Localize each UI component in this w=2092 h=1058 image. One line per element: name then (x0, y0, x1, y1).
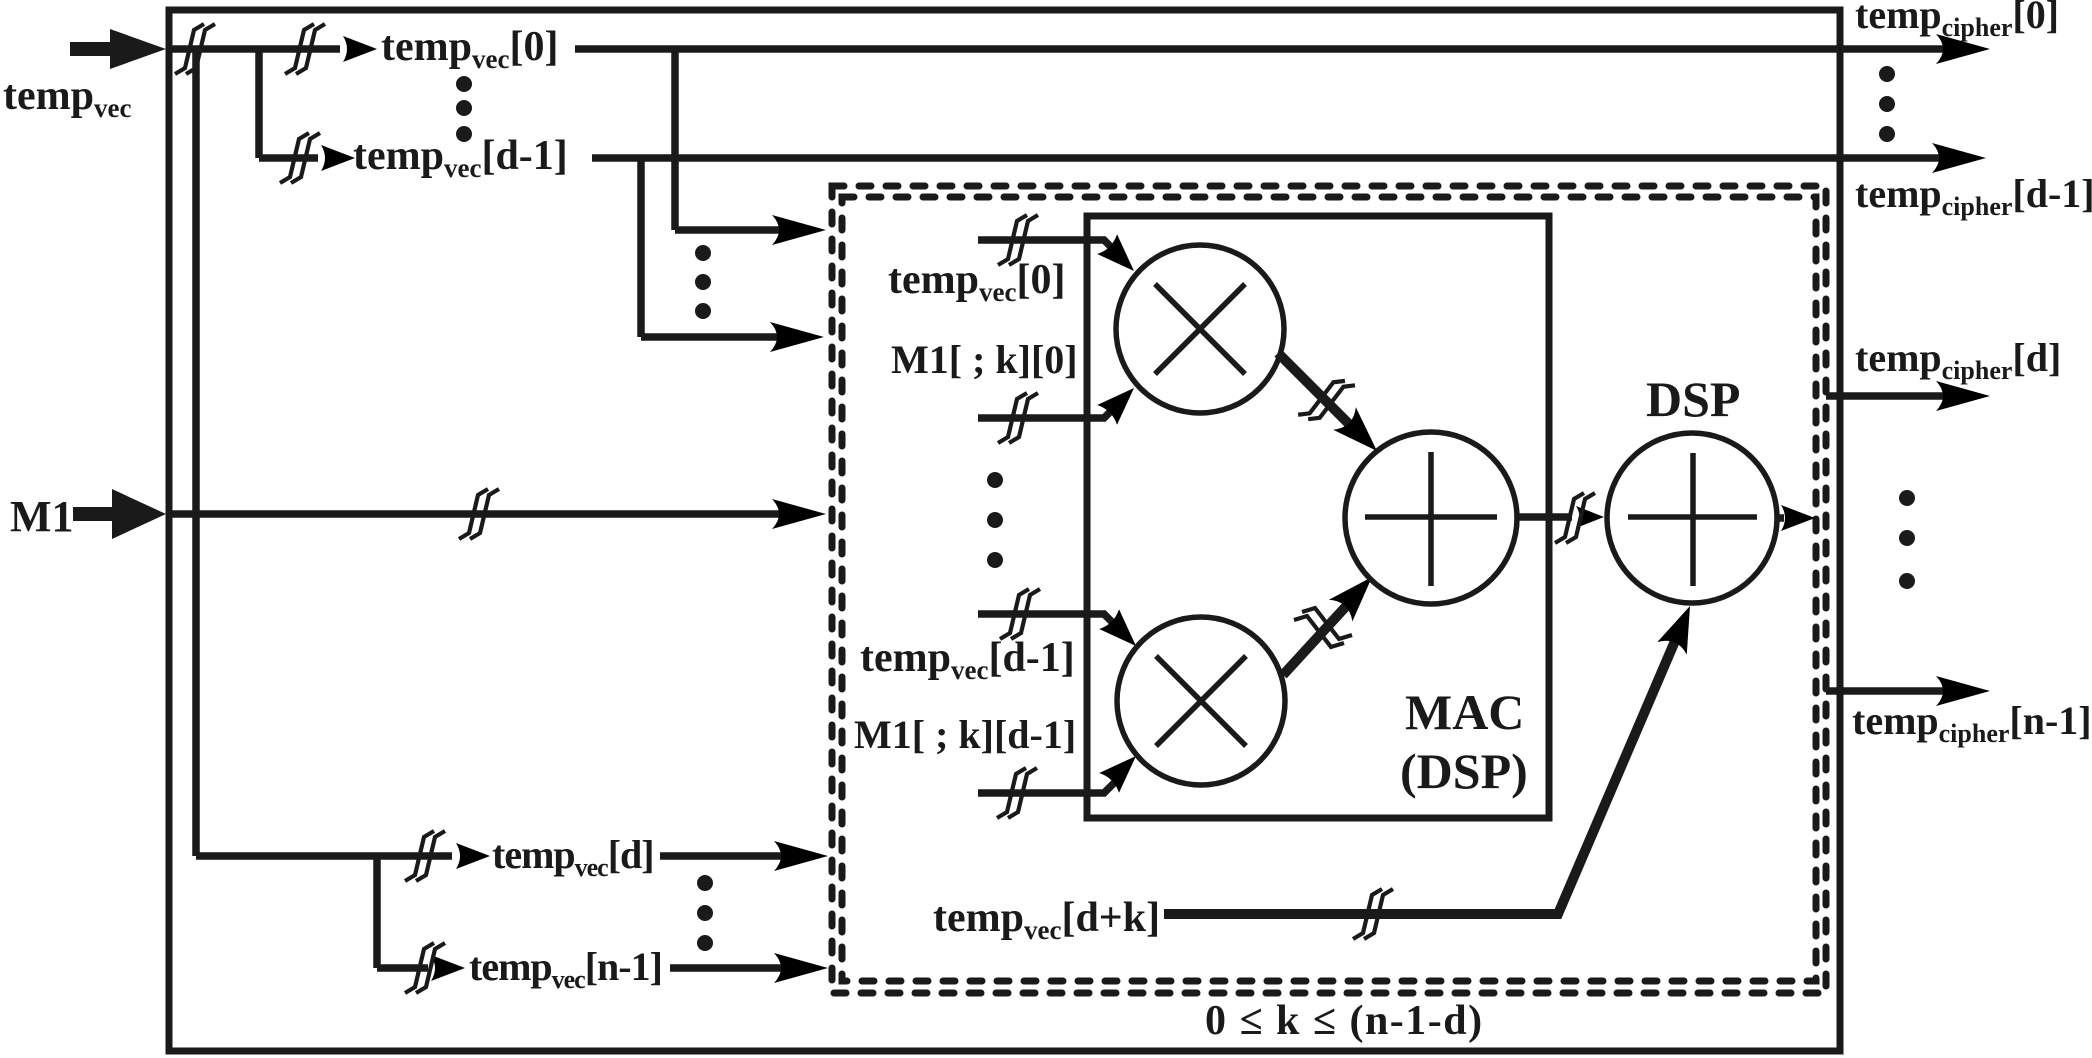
arrowhead into temp_vec[d-1] label (321, 145, 355, 171)
svg-text:MAC: MAC (1405, 684, 1524, 740)
multiplier U1 (top X circle) (1116, 245, 1284, 413)
svg-text:tempcipher[n-1]: tempcipher[n-1] (1852, 698, 2092, 748)
wire temp_vec[d] row segment A (196, 852, 452, 860)
svg-text:tempvec[0]: tempvec[0] (888, 257, 1065, 307)
wire into dashed box (top tap) (675, 226, 786, 234)
svg-text:tempvec[d]: tempvec[d] (492, 832, 654, 882)
adder U4 (DSP + circle) (1607, 433, 1777, 603)
wire temp_vec[n-1] into dashed box (670, 964, 790, 972)
adder U3 (MAC + circle) (1345, 432, 1517, 604)
svg-text:tempvec: tempvec (3, 73, 131, 123)
wire temp_vec[d+k] to DSP adder (1164, 634, 1678, 914)
wire M1 into dashed box (166, 510, 786, 518)
wire temp_vec[d] into dashed box (660, 852, 790, 860)
wire vertical tap from temp_vec[d-1] down (637, 158, 645, 337)
wire main vertical from temp_vec down to row d (192, 49, 200, 856)
wire temp_vec[d-1] feed to multiplier U2 (978, 614, 1116, 626)
wire temp_vec[d-1] to temp_cipher[d-1] (592, 154, 1946, 162)
wire vertical tap from temp_vec[0] down (671, 49, 679, 230)
svg-text:M1: M1 (10, 492, 74, 541)
bus slash at enclosure entry (175, 24, 215, 74)
svg-text:DSP: DSP (1646, 371, 1740, 427)
bus slash on M1 wire (459, 489, 499, 539)
svg-text:M1[ ; k][d-1]: M1[ ; k][d-1] (854, 712, 1076, 757)
wire temp_vec[0] to temp_cipher[0] (575, 45, 1950, 53)
wire temp_cipher[d] output (1826, 392, 1950, 400)
bus slash before temp_vec[d-1] (280, 133, 320, 183)
wire product U2 to adder U3 (1283, 602, 1350, 675)
svg-text:tempvec[d+k]: tempvec[d+k] (933, 895, 1160, 945)
arrowhead temp_cipher[0] output (1936, 34, 1990, 64)
wire temp_vec[0] row segment A (166, 45, 340, 53)
wire adder U3 to DSP adder U4 (1517, 513, 1572, 521)
wire temp_vec[0] feed to multiplier U1 (978, 240, 1114, 250)
svg-text:tempvec[0]: tempvec[0] (381, 24, 558, 74)
ellipsis dots inner-left (987, 472, 1003, 568)
bus slash before temp_vec[d] (405, 831, 445, 881)
MAC (DSP) block box (1087, 216, 1549, 818)
svg-text:M1[ ; k][0]: M1[ ; k][0] (891, 337, 1078, 382)
dashed replication box (inner) (842, 197, 1816, 981)
wire branch vertical to row d-1 (255, 49, 263, 158)
wire branch vertical to row n-1 (373, 856, 381, 968)
input M1 thick arrow (73, 489, 166, 539)
input temp_vec thick arrow (70, 29, 166, 69)
wire temp_vec[d-1] row segment A (259, 154, 318, 162)
ellipsis dots between rows d and n-1 (697, 875, 713, 951)
bus slash before temp_vec[0] (285, 24, 325, 74)
wire into dashed box (second tap) (641, 333, 784, 341)
arrowhead into temp_vec[0] label (343, 36, 377, 62)
multiplier U2 (bottom X circle) (1117, 617, 1285, 785)
svg-text:tempcipher[d]: tempcipher[d] (1855, 335, 2061, 385)
ellipsis dots right top (1879, 66, 1895, 142)
wire M1[ ; k][0] feed to multiplier U1 (978, 408, 1114, 418)
svg-text:tempvec[d-1]: tempvec[d-1] (860, 635, 1075, 685)
wire temp_vec[n-1] row segment A (377, 964, 428, 972)
ellipsis dots between taps (695, 245, 711, 319)
wire DSP adder output (1777, 514, 1784, 522)
bus slash before temp_vec[n-1] (405, 943, 445, 993)
svg-text:(DSP): (DSP) (1400, 743, 1528, 799)
svg-text:tempcipher[d-1]: tempcipher[d-1] (1855, 171, 2092, 221)
dashed replication box (outer) (832, 186, 1826, 993)
outer enclosure box (169, 10, 1840, 1051)
wire product U1 to adder U3 (1278, 353, 1352, 427)
svg-text:0 ≤ k ≤ (n-1-d): 0 ≤ k ≤ (n-1-d) (1205, 998, 1484, 1044)
ellipsis dots right middle (1899, 490, 1915, 589)
wire M1[ ; k][d-1] feed to multiplier U2 (978, 781, 1116, 793)
ellipsis dots between temp_vec[0] and temp_vec[d-1] (456, 76, 472, 142)
arrowhead temp_cipher[d-1] output (1932, 143, 1986, 173)
svg-text:tempvec[n-1]: tempvec[n-1] (469, 944, 662, 994)
wire temp_cipher[n-1] output (1826, 687, 1950, 695)
svg-text:tempcipher[0]: tempcipher[0] (1855, 0, 2059, 42)
